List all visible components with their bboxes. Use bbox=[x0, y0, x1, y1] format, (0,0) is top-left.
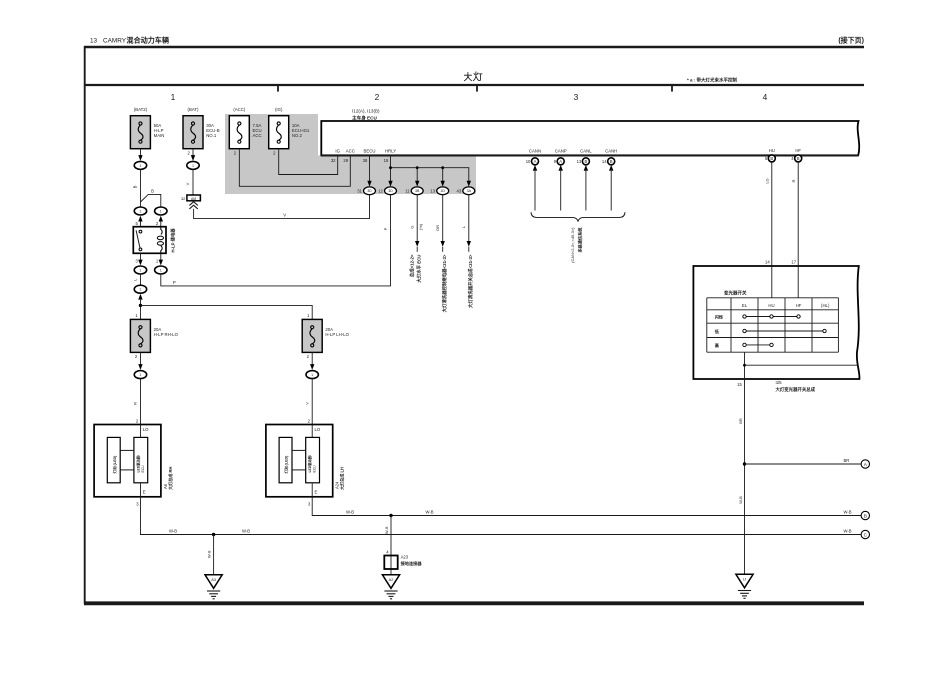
svg-text:HU: HU bbox=[769, 148, 775, 153]
svg-text:(ACC): (ACC) bbox=[233, 107, 246, 112]
svg-text:BR: BR bbox=[738, 418, 743, 424]
svg-text:14: 14 bbox=[602, 159, 607, 164]
svg-text:闪烁: 闪烁 bbox=[715, 314, 724, 321]
svg-text:32: 32 bbox=[331, 158, 336, 163]
fuse 30A ECU-B NO.1 (BAT) bbox=[183, 116, 203, 149]
svg-text:P: P bbox=[173, 280, 176, 285]
svg-text:混合动力车辆: 混合动力车辆 bbox=[127, 36, 170, 45]
svg-text:(BAT2): (BAT2) bbox=[134, 107, 148, 112]
wire R to RH lamp bbox=[139, 379, 141, 424]
svg-text:4: 4 bbox=[763, 92, 768, 102]
connector oval 43 (3A) bbox=[463, 187, 475, 195]
svg-text:1: 1 bbox=[139, 210, 141, 214]
wire G to headlamp leveling ECU bbox=[416, 195, 418, 241]
wire CAN CANP bbox=[559, 165, 563, 171]
fuse 7.5A ECU ACC (ACC) bbox=[229, 116, 249, 149]
fuse 20A H-LP RH-LO bbox=[130, 319, 150, 352]
fuse 50A H-LP MAIN (BAT2) bbox=[130, 116, 150, 149]
svg-text:W-B: W-B bbox=[844, 528, 852, 533]
frame top border bbox=[84, 46, 864, 48]
svg-text:A: A bbox=[534, 159, 537, 164]
wire B branch to relay coil bbox=[140, 194, 160, 206]
wire into relay pins bbox=[139, 222, 141, 227]
svg-text:1: 1 bbox=[139, 269, 141, 273]
wire L to headlamp cleaner switch bbox=[468, 195, 470, 241]
svg-text:AM: AM bbox=[191, 197, 196, 201]
svg-text:R: R bbox=[791, 179, 796, 182]
svg-text:1: 1 bbox=[139, 373, 141, 377]
wire ACC to ECU pin 29 bbox=[239, 149, 350, 187]
wire P from ECU pin 12 to relay coil bbox=[161, 195, 391, 286]
ground IJ bbox=[736, 574, 753, 588]
junction dots on HRLY line bbox=[389, 166, 392, 169]
svg-text:(IG): (IG) bbox=[275, 107, 283, 112]
svg-text:17: 17 bbox=[791, 259, 796, 264]
svg-text:(BAT): (BAT) bbox=[188, 107, 199, 112]
wire B to relay contact bbox=[139, 170, 141, 207]
svg-text:HU: HU bbox=[768, 303, 774, 308]
svg-text:13: 13 bbox=[430, 188, 435, 193]
svg-text:(HL): (HL) bbox=[821, 303, 830, 308]
svg-text:HRLY: HRLY bbox=[385, 149, 396, 154]
svg-text:大灯清洗器开关总成<31-3>: 大灯清洗器开关总成<31-3> bbox=[467, 254, 474, 308]
wire CAN CANH bbox=[609, 165, 613, 171]
svg-text:V: V bbox=[283, 213, 286, 218]
svg-text:LO: LO bbox=[315, 427, 321, 432]
svg-text:W-B: W-B bbox=[346, 509, 354, 514]
wire HF inside dimmer box bbox=[797, 266, 799, 298]
svg-text:IG: IG bbox=[335, 149, 340, 154]
connector oval 11 (3B) bbox=[411, 187, 423, 195]
connector below relay pin 3 bbox=[139, 253, 141, 260]
connector above relay pin 2 bbox=[159, 216, 163, 222]
svg-text:EL: EL bbox=[742, 303, 748, 308]
svg-text:IJ: IJ bbox=[743, 577, 746, 582]
headlamp assembly LH bbox=[266, 425, 333, 497]
svg-text:BECU: BECU bbox=[364, 149, 376, 154]
svg-text:B: B bbox=[797, 156, 800, 161]
svg-text:15: 15 bbox=[737, 382, 742, 387]
svg-text:32: 32 bbox=[181, 196, 185, 201]
wire HU inside dimmer box bbox=[771, 266, 773, 298]
wire OR to headlamp cleaner control relay bbox=[442, 195, 444, 241]
svg-text:ECU: ECU bbox=[313, 465, 317, 473]
svg-text:14: 14 bbox=[765, 259, 770, 264]
svg-text:G: G bbox=[410, 225, 415, 228]
svg-text:LED驱动器/: LED驱动器/ bbox=[307, 455, 312, 472]
svg-text:10: 10 bbox=[526, 159, 531, 164]
svg-text:B: B bbox=[610, 159, 613, 164]
connector B at page edge bbox=[861, 511, 869, 519]
frame bottom border bbox=[84, 601, 864, 605]
svg-text:变光器开关: 变光器开关 bbox=[724, 289, 747, 296]
headlamp assembly RH bbox=[94, 425, 161, 497]
svg-text:A: A bbox=[559, 159, 562, 164]
svg-text:31: 31 bbox=[357, 188, 362, 193]
svg-text:ECU: ECU bbox=[141, 465, 145, 473]
svg-text:1: 1 bbox=[139, 288, 141, 292]
svg-text:3A: 3A bbox=[467, 189, 472, 193]
svg-text:CANL: CANL bbox=[580, 149, 592, 154]
svg-text:W-B: W-B bbox=[207, 550, 212, 558]
svg-text:CANH: CANH bbox=[605, 149, 617, 154]
svg-text:11: 11 bbox=[405, 188, 410, 193]
relay coil bbox=[161, 227, 162, 235]
svg-text:3D: 3D bbox=[367, 189, 372, 193]
svg-text:总成<12-2>: 总成<12-2> bbox=[409, 254, 416, 277]
junction BR bbox=[743, 462, 746, 465]
fuse 20A H-LP LH-LO bbox=[302, 319, 322, 352]
svg-text:MAIN: MAIN bbox=[154, 133, 165, 138]
wire to LH-LO fuse bbox=[140, 305, 312, 319]
svg-text:LED驱动器/: LED驱动器/ bbox=[135, 455, 140, 472]
svg-text:1D: 1D bbox=[440, 189, 445, 193]
svg-text:LG: LG bbox=[765, 178, 770, 183]
connector oval 12 (3D) bbox=[385, 187, 397, 195]
headlamp dimmer switch assembly I25 bbox=[693, 266, 859, 379]
svg-text:B: B bbox=[864, 513, 867, 518]
frame left border bbox=[84, 46, 86, 604]
svg-text:W-B: W-B bbox=[738, 496, 743, 504]
ground A3 bbox=[205, 575, 222, 589]
drop to joint connector bbox=[390, 516, 392, 575]
svg-text:大灯总成 RH: 大灯总成 RH bbox=[167, 467, 173, 490]
wire IG to ECU pin 32 bbox=[279, 149, 338, 175]
svg-text:2: 2 bbox=[375, 92, 380, 102]
wire BECU pin 38 to connector bbox=[369, 155, 371, 182]
relay contact bbox=[139, 230, 142, 233]
svg-text:P: P bbox=[383, 227, 388, 230]
relay H-LP box bbox=[133, 227, 166, 254]
svg-text:W-B: W-B bbox=[844, 509, 852, 514]
svg-text:B: B bbox=[585, 159, 588, 164]
connector RH lamp feed bbox=[134, 371, 146, 379]
svg-text:LO: LO bbox=[143, 427, 149, 432]
svg-text:43: 43 bbox=[457, 188, 462, 193]
svg-text:* a : 带大灯光束水平控制: * a : 带大灯光束水平控制 bbox=[687, 77, 738, 84]
svg-text:A3: A3 bbox=[211, 577, 216, 582]
wire below LH-LO fuse bbox=[311, 352, 313, 364]
svg-text:大灯清洗器控制继电器<31-3>: 大灯清洗器控制继电器<31-3> bbox=[441, 254, 448, 312]
svg-text:(CAN<2-3>,<45-3>): (CAN<2-3>,<45-3>) bbox=[570, 227, 575, 263]
svg-text:多路通信系统: 多路通信系统 bbox=[576, 227, 583, 253]
svg-text:V: V bbox=[304, 402, 309, 405]
svg-text:1: 1 bbox=[171, 92, 176, 102]
svg-text:15: 15 bbox=[384, 158, 389, 163]
svg-text:V: V bbox=[185, 182, 190, 185]
shaded option region bbox=[225, 114, 476, 194]
svg-text:HF: HF bbox=[796, 303, 802, 308]
svg-text:E: E bbox=[315, 489, 318, 494]
connector below relay pin 1 bbox=[160, 253, 162, 260]
svg-text:CANN: CANN bbox=[529, 149, 541, 154]
svg-text:(*a): (*a) bbox=[419, 224, 423, 230]
svg-text:B: B bbox=[151, 188, 154, 193]
separator ticks bbox=[277, 85, 279, 92]
connector oval 31 (3D) bbox=[364, 187, 376, 195]
connector on H-LP MAIN feed bbox=[134, 161, 146, 169]
LH lamp ground wire W-B bbox=[312, 497, 861, 516]
svg-text:ACC: ACC bbox=[346, 149, 355, 154]
svg-text:BR: BR bbox=[844, 458, 850, 463]
dimmer switch table bbox=[707, 297, 839, 299]
svg-text:大灯变光器开关总成: 大灯变光器开关总成 bbox=[776, 386, 816, 393]
svg-text:I25: I25 bbox=[776, 380, 783, 385]
connector C at page edge bbox=[861, 530, 869, 538]
svg-text:1: 1 bbox=[192, 164, 194, 168]
connector LH lamp feed bbox=[306, 371, 318, 379]
RH lamp ground wire W-B bbox=[140, 497, 861, 535]
svg-text:OR: OR bbox=[435, 225, 440, 231]
wire V to LH lamp bbox=[311, 379, 313, 424]
svg-text:灯泡 (LED): 灯泡 (LED) bbox=[112, 455, 117, 474]
junction headlamp feed bbox=[139, 304, 142, 307]
wire L from relay output bbox=[139, 275, 141, 285]
wire LG from HU to dimmer switch bbox=[771, 162, 773, 298]
svg-text:I12(A), I13(B): I12(A), I13(B) bbox=[352, 109, 380, 114]
svg-text:NO.2: NO.2 bbox=[292, 133, 303, 138]
wire BR to connector A bbox=[745, 463, 862, 465]
svg-text:W-B: W-B bbox=[169, 528, 177, 533]
junction connector chevrons bbox=[189, 202, 197, 206]
svg-text:E: E bbox=[143, 489, 146, 494]
connector on relay output bbox=[134, 285, 146, 293]
svg-text:主车身 ECU: 主车身 ECU bbox=[352, 114, 377, 121]
CAN brace bbox=[531, 212, 625, 221]
svg-text:CANP: CANP bbox=[555, 149, 567, 154]
wire from H-LP MAIN fuse bbox=[139, 149, 141, 156]
wire CAN CANN bbox=[533, 165, 537, 171]
junction RH ground bbox=[212, 533, 215, 536]
svg-text:H-LP LH-LO: H-LP LH-LO bbox=[325, 332, 349, 337]
connector A at page edge bbox=[861, 460, 869, 468]
svg-text:3: 3 bbox=[574, 92, 579, 102]
title DaDeng (headlight) hand-drawn glyphs bbox=[464, 72, 482, 81]
svg-text:W-B: W-B bbox=[384, 526, 389, 534]
svg-text:H-LP 继电器: H-LP 继电器 bbox=[170, 228, 177, 253]
svg-text:W-B: W-B bbox=[426, 509, 434, 514]
dimmer internal junction bbox=[743, 364, 746, 367]
svg-text:HF: HF bbox=[795, 148, 801, 153]
junction LH ground bbox=[389, 514, 392, 517]
svg-text:12: 12 bbox=[378, 188, 383, 193]
svg-text:高: 高 bbox=[715, 342, 719, 349]
junction connector AM bbox=[187, 195, 201, 201]
wire below ECU-B fuse bbox=[192, 149, 194, 156]
svg-text:大灯水平 ECU: 大灯水平 ECU bbox=[415, 255, 422, 283]
svg-text:CAMRY: CAMRY bbox=[103, 38, 127, 45]
connector above relay pin 5 bbox=[138, 216, 142, 222]
ground A2 bbox=[382, 575, 399, 589]
connector oval 13 (1D) bbox=[437, 187, 449, 195]
svg-text:A23: A23 bbox=[401, 555, 409, 560]
svg-text:ACC: ACC bbox=[253, 133, 262, 138]
wire from relay output to headlamp fuses bbox=[139, 300, 141, 320]
svg-text:R: R bbox=[133, 402, 138, 405]
dimmer EL output wire bbox=[744, 352, 746, 575]
svg-text:NO.1: NO.1 bbox=[206, 133, 217, 138]
svg-text:A2: A2 bbox=[389, 577, 394, 582]
svg-text:3D: 3D bbox=[388, 189, 393, 193]
svg-text:B: B bbox=[770, 156, 773, 161]
svg-text:接地连接器: 接地连接器 bbox=[401, 560, 423, 567]
wire V to body ECU pin 38 bbox=[194, 195, 370, 219]
wire below RH-LO fuse bbox=[139, 352, 141, 364]
svg-text:29: 29 bbox=[343, 158, 348, 163]
svg-text:大灯总成 LH: 大灯总成 LH bbox=[339, 467, 345, 490]
svg-text:灯泡 (LED): 灯泡 (LED) bbox=[284, 455, 289, 474]
svg-text:低: 低 bbox=[714, 328, 720, 335]
connector ECU-B feed bbox=[187, 161, 199, 169]
svg-text:B: B bbox=[133, 185, 138, 188]
wire CAN CANL bbox=[584, 165, 588, 171]
svg-text:13: 13 bbox=[90, 38, 98, 45]
fuse 10A ECU-IG1 NO.2 (IG) bbox=[269, 116, 289, 149]
svg-text:38: 38 bbox=[363, 158, 368, 163]
svg-text:13: 13 bbox=[577, 159, 582, 164]
wire V to junction connector bbox=[192, 170, 194, 195]
header separator line bbox=[84, 84, 864, 86]
svg-text:H-LP RH-LO: H-LP RH-LO bbox=[154, 332, 179, 337]
svg-text:1: 1 bbox=[139, 164, 141, 168]
wire R from HF to dimmer switch bbox=[797, 162, 799, 298]
wire HRLY pin 15 distribution bbox=[390, 155, 392, 167]
svg-text:1: 1 bbox=[160, 210, 162, 214]
ground drop A3 bbox=[213, 535, 215, 575]
svg-text:W-B: W-B bbox=[242, 528, 250, 533]
svg-text:1: 1 bbox=[160, 269, 162, 273]
svg-text:(接下页): (接下页) bbox=[838, 36, 864, 45]
svg-text:1: 1 bbox=[311, 373, 313, 377]
main body ECU I12(A) I13(B) bbox=[321, 121, 859, 155]
svg-text:3B: 3B bbox=[415, 189, 420, 193]
